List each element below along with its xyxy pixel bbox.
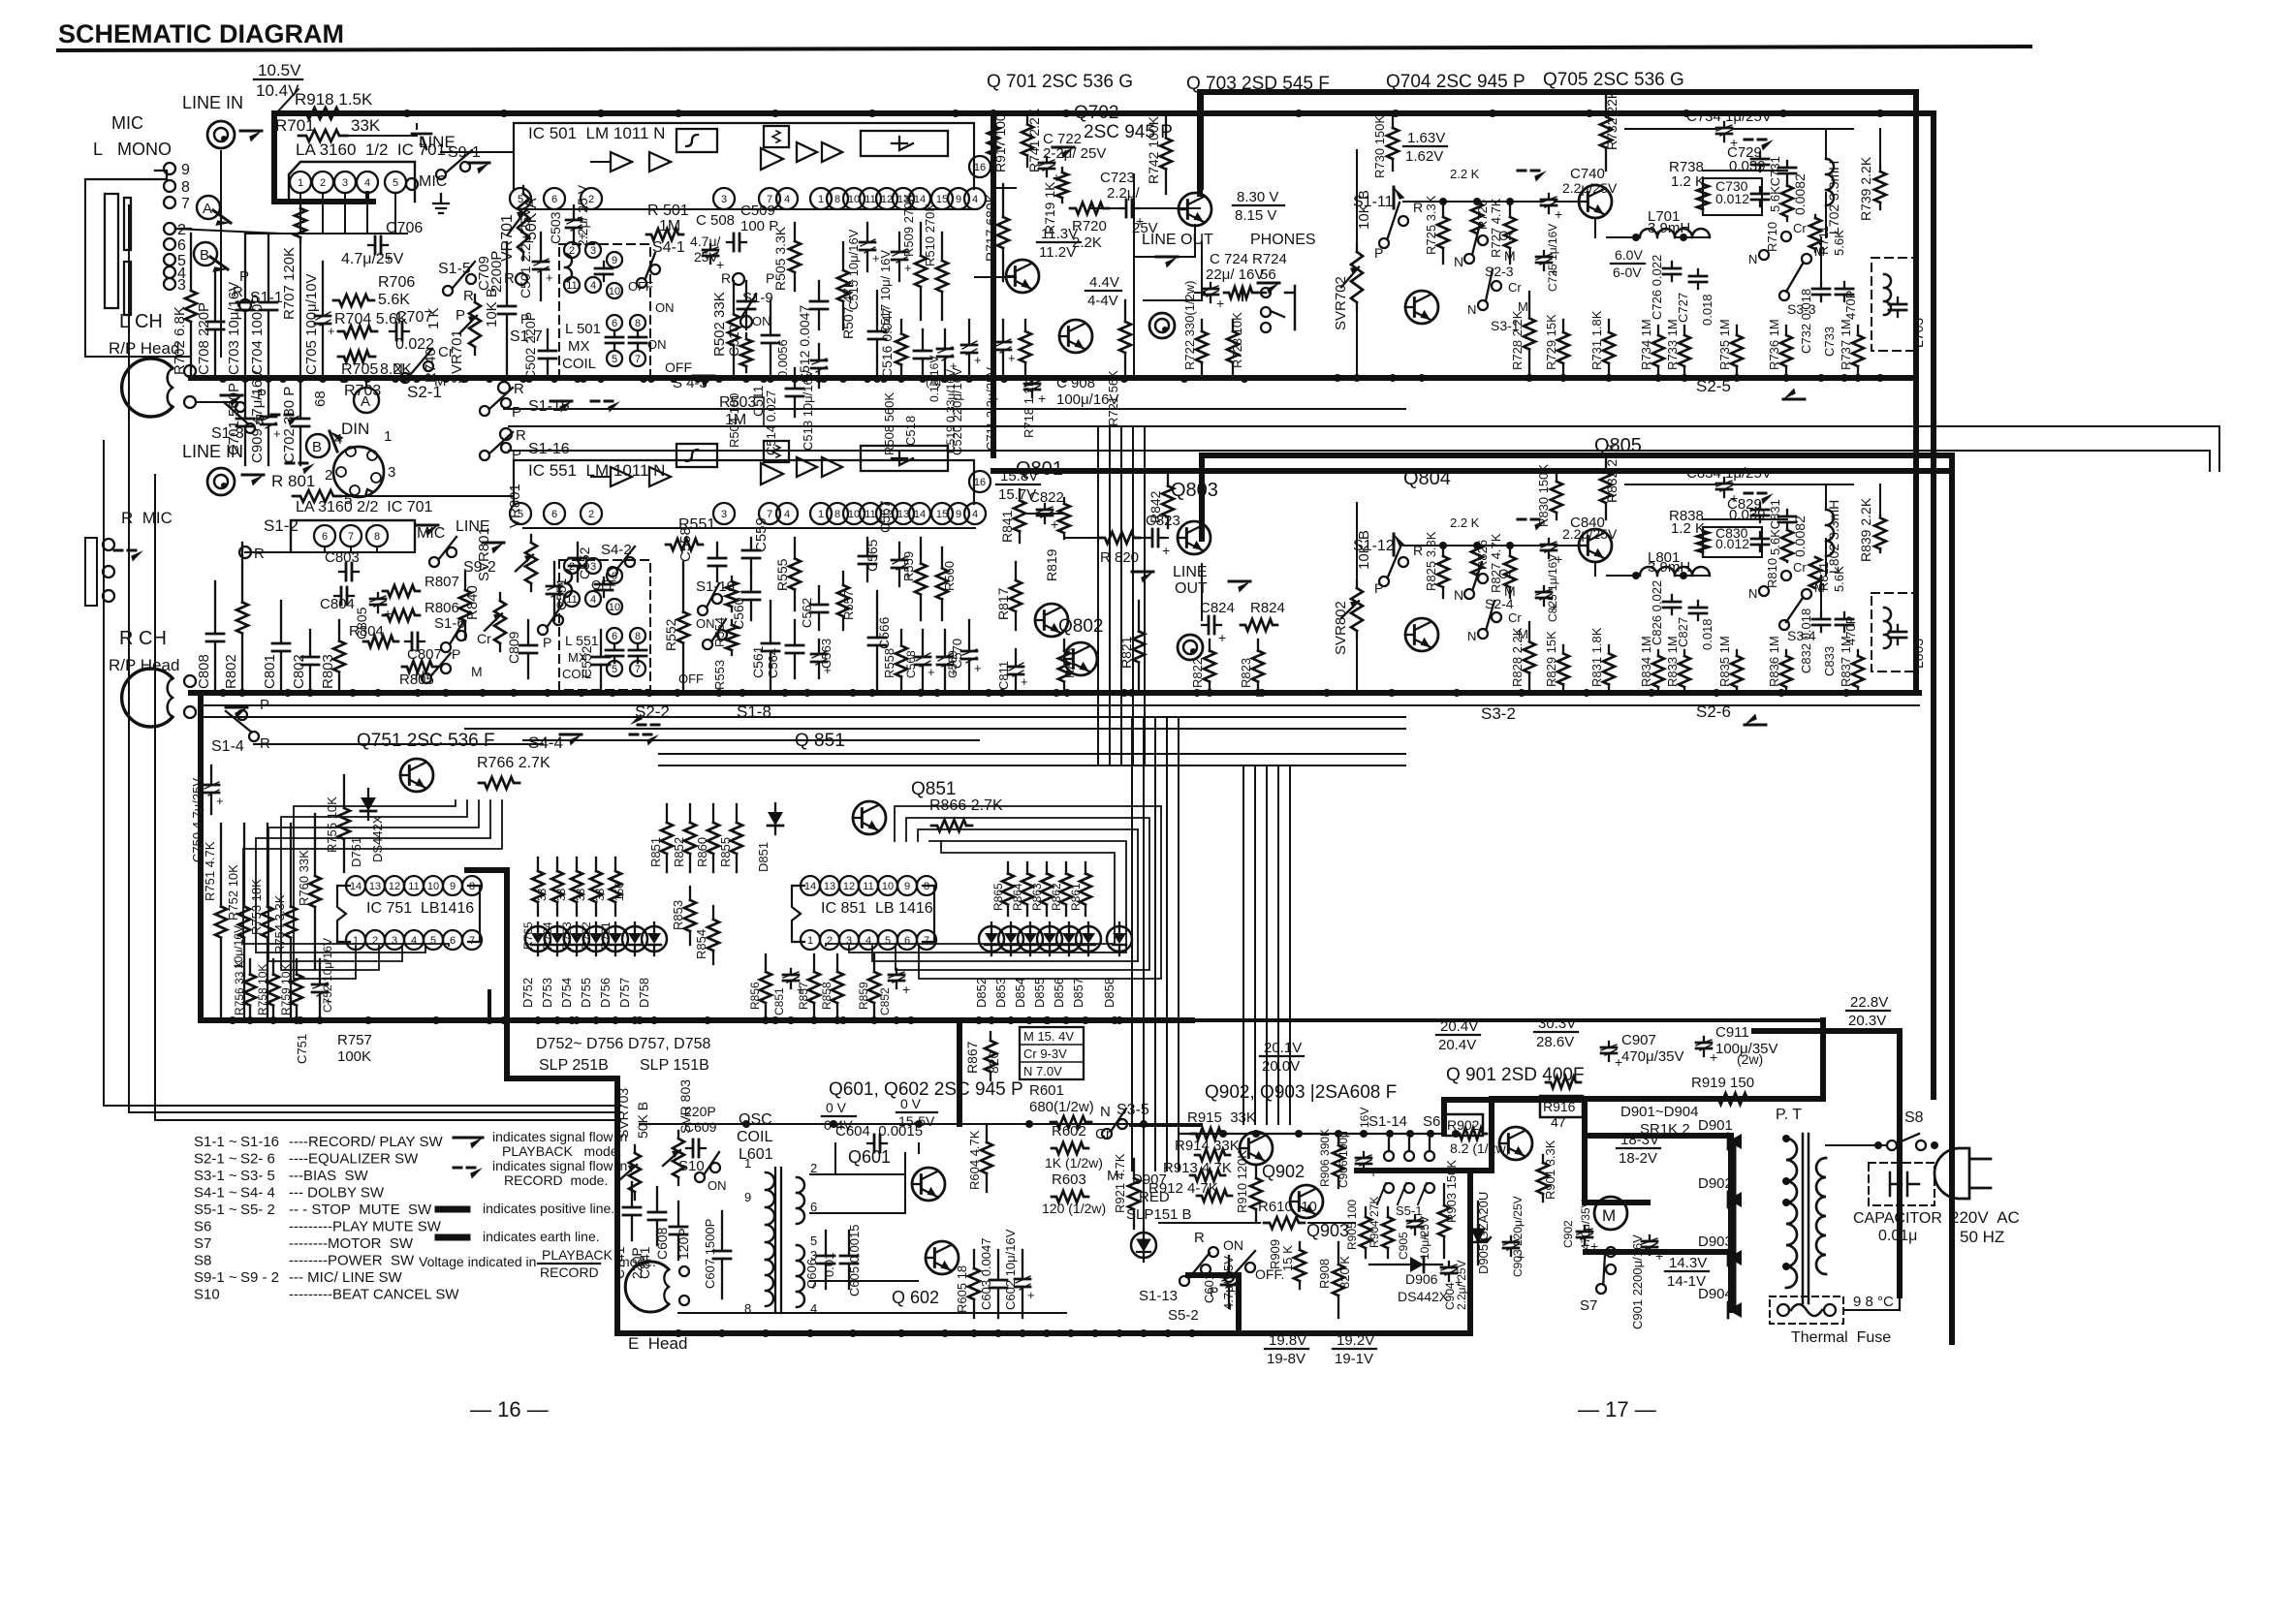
IC 851 wiring 0 — [895, 806, 1161, 979]
svg-text:28.6V: 28.6V — [1536, 1034, 1574, 1050]
svg-text:C 908: C 908 — [1056, 375, 1095, 391]
svg-text:C515 10μ/16V: C515 10μ/16V — [846, 229, 861, 310]
wire R701 to LINE sw — [416, 124, 418, 129]
mic contact 3 — [164, 278, 175, 290]
resistor R828 — [1528, 622, 1530, 641]
svg-text:100μ/16V: 100μ/16V — [1056, 391, 1119, 408]
svg-text:C607 1500P: C607 1500P — [703, 1219, 717, 1289]
svg-text:C832 0.018: C832 0.018 — [1799, 609, 1813, 673]
svg-text:0.01: 0.01 — [822, 1253, 836, 1277]
svg-text:R732 22K: R732 22K — [1604, 89, 1620, 150]
svg-text:10K B: 10K B — [1356, 530, 1372, 570]
IC701 2/2 outline — [291, 520, 415, 550]
svg-text:3: 3 — [590, 561, 596, 573]
resistor R913 — [1190, 1170, 1225, 1181]
capacitor C609 — [686, 1147, 693, 1149]
switch S1-11 — [1379, 238, 1389, 248]
capacitor C727 — [1697, 269, 1699, 276]
mic jack pin plate — [124, 198, 131, 250]
switch S9-1 mic contact — [406, 178, 418, 190]
svg-text:R508 560K: R508 560K — [882, 392, 896, 455]
svg-text:D855: D855 — [1032, 978, 1047, 1008]
resistor R825 — [1442, 546, 1444, 556]
svg-text:18-2V: 18-2V — [1619, 1150, 1657, 1167]
svg-text:10μ/16V: 10μ/16V — [232, 925, 245, 969]
capacitor C603 — [997, 1250, 999, 1280]
arrow s43b — [591, 400, 613, 403]
resistor R864r — [1026, 862, 1028, 874]
svg-text:P: P — [452, 646, 460, 662]
resistor R552 — [682, 562, 684, 612]
arrow s44b — [630, 734, 651, 736]
svg-text:C826 0.022: C826 0.022 — [1650, 580, 1664, 645]
switch S1-6 — [441, 642, 451, 652]
resistor R832 — [1605, 455, 1607, 472]
diode D906 — [1410, 1257, 1424, 1272]
svg-text:Q601: Q601 — [848, 1147, 891, 1167]
bus top right outer — [1200, 89, 1916, 95]
svg-text:R560: R560 — [942, 561, 957, 591]
capacitor C805 — [377, 593, 379, 599]
capacitor C519 — [944, 329, 946, 349]
svg-text:R717 680K: R717 680K — [983, 193, 998, 262]
svg-text:D852: D852 — [974, 978, 989, 1008]
capacitor C511 — [770, 300, 771, 335]
resistor R727 — [1509, 202, 1511, 217]
svg-text:Cr: Cr — [477, 631, 491, 646]
svg-text:8: 8 — [635, 631, 641, 642]
svg-text:R601: R601 — [1029, 1082, 1064, 1099]
IC 851 pin 11 — [859, 876, 878, 895]
bus right V3 drop — [1949, 455, 1955, 1342]
L501 cap a — [603, 262, 605, 268]
svg-text:-- - STOP MUTE SW: -- - STOP MUTE SW — [289, 1202, 432, 1218]
capacitor C567 — [898, 543, 900, 560]
svg-text:Q803: Q803 — [1171, 480, 1218, 501]
IC551 pin 2 — [581, 503, 602, 524]
transistor Q601 — [912, 1168, 945, 1201]
earth bus left drop — [198, 693, 204, 1020]
power V diode col — [1728, 1136, 1734, 1310]
svg-text:3: 3 — [721, 509, 727, 520]
resonator L803 box — [1871, 593, 1914, 671]
svg-text:----EQUALIZER SW: ----EQUALIZER SW — [289, 1151, 419, 1168]
svg-text:R 820: R 820 — [1100, 549, 1139, 566]
svg-text:+: + — [974, 661, 982, 675]
svg-text:S7: S7 — [1580, 1297, 1597, 1314]
switch S1-5 — [443, 286, 453, 296]
IC551 pin 13 — [893, 503, 914, 524]
resistor R921 4.7K — [1133, 1159, 1135, 1178]
svg-text:A: A — [361, 393, 370, 410]
svg-text:N: N — [1748, 586, 1757, 601]
svg-text:D752: D752 — [520, 978, 535, 1008]
svg-text:16: 16 — [974, 477, 986, 488]
resistor R739 — [1879, 165, 1881, 172]
positive bus L top — [274, 110, 1934, 116]
svg-text:N: N — [1454, 587, 1463, 603]
resistor R834 — [1657, 650, 1659, 656]
pot VR701 wiper — [508, 211, 525, 234]
mic R contacts — [103, 539, 114, 550]
svg-text:Cr: Cr — [1508, 280, 1522, 295]
IC 751 pin 10 — [424, 876, 443, 895]
dots earth R2 — [238, 689, 1262, 697]
svg-text:R912 4-7K: R912 4-7K — [1148, 1180, 1218, 1197]
svg-text:D901: D901 — [1698, 1117, 1733, 1134]
svg-text:---------BEAT CANCEL SW: ---------BEAT CANCEL SW — [289, 1287, 459, 1303]
IC 851 wiring 3 — [849, 841, 1126, 953]
switch S1-12 — [1379, 577, 1389, 586]
IC 851 wiring 2 — [872, 829, 1138, 961]
svg-text:DS442X: DS442X — [370, 815, 385, 862]
IC 851 wiring 1 — [896, 818, 1149, 970]
svg-text:S1-4: S1-4 — [211, 738, 244, 755]
svg-text:68: 68 — [312, 390, 329, 407]
resistor R702 6.8K — [190, 234, 192, 291]
switch bias N — [400, 373, 410, 383]
L551 cap c — [637, 643, 639, 650]
IC501 pin 4 — [964, 188, 986, 209]
wire c724 rail — [1195, 292, 1205, 294]
svg-text:SLP151 B: SLP151 B — [1126, 1206, 1192, 1223]
svg-text:R711: R711 — [1816, 226, 1831, 255]
diode D851 — [768, 812, 783, 826]
resistor R732 — [1605, 94, 1607, 116]
inductor L601a — [766, 1172, 774, 1260]
svg-text:R856: R856 — [748, 982, 762, 1010]
capacitor C822 — [1044, 504, 1046, 510]
IC551 pin 6 — [544, 503, 565, 524]
svg-text:Q802: Q802 — [1058, 616, 1103, 637]
svg-text:R823: R823 — [1239, 658, 1253, 688]
IC501 pin 9 — [948, 188, 969, 209]
junction dots top bus — [403, 109, 1884, 117]
IC 851 pin 14 — [801, 876, 820, 895]
LED block right V — [957, 1020, 962, 1124]
resistor R855 — [736, 804, 738, 823]
svg-text:R552: R552 — [663, 618, 678, 651]
wire LINE sw to IC — [441, 151, 514, 153]
supply run LED to C911 — [1192, 1018, 1823, 1022]
switch bias N R — [422, 673, 431, 683]
capacitor C732 — [1820, 282, 1822, 289]
svg-text:R817: R817 — [995, 587, 1011, 620]
svg-text:2-2μ/ 25V: 2-2μ/ 25V — [1043, 145, 1106, 162]
resistor R507 47K — [842, 242, 844, 270]
capacitor L803 cap — [1897, 625, 1899, 632]
IC701b pin 7 — [340, 525, 362, 547]
resistor R725 — [1442, 202, 1444, 217]
svg-text:D901~D904: D901~D904 — [1620, 1104, 1698, 1120]
svg-text:R867: R867 — [964, 1041, 980, 1074]
svg-text:1: 1 — [818, 194, 824, 205]
IC 851 outline2 — [923, 886, 934, 942]
capacitor C824 — [1202, 624, 1209, 626]
svg-text:R706: R706 — [378, 274, 415, 291]
wire C734 run2 — [1732, 128, 1853, 130]
transistor Q702 — [1006, 260, 1039, 293]
IC 751 pin 6 — [443, 930, 462, 950]
resistor R710 — [1786, 181, 1788, 186]
resistor R805 — [402, 661, 437, 672]
capacitor C706 — [368, 244, 375, 246]
capacitor C552a — [577, 543, 579, 558]
resistor R851 — [666, 804, 668, 823]
svg-text:+: + — [216, 794, 224, 808]
svg-text:S2- 6: S2- 6 — [240, 1151, 275, 1168]
svg-text:Q804: Q804 — [1403, 468, 1451, 489]
svg-text:C726 0.022: C726 0.022 — [1650, 255, 1664, 320]
inductor L601d — [797, 1245, 804, 1307]
svg-text:10K B: 10K B — [484, 288, 500, 328]
stub IC701 pin — [299, 193, 301, 234]
LED D907 — [1131, 1233, 1156, 1258]
resistor R865r — [1007, 862, 1009, 874]
svg-text:12: 12 — [843, 881, 855, 892]
resistor R841 — [1019, 489, 1021, 500]
svg-text:R753 18K: R753 18K — [249, 879, 264, 935]
svg-text:8: 8 — [374, 531, 380, 543]
capacitor C604 — [867, 1142, 874, 1144]
svg-text:Q751 2SC 536 F: Q751 2SC 536 F — [357, 731, 495, 751]
svg-text:0 V: 0 V — [900, 1096, 922, 1111]
earth bus R — [191, 690, 1919, 696]
wire S1-16 bend — [2209, 451, 2211, 471]
svg-text:0 V: 0 V — [826, 1100, 847, 1115]
svg-text:R509 270K: R509 270K — [901, 194, 916, 257]
svg-text:0.012: 0.012 — [1715, 191, 1749, 206]
capacitor C829 — [1759, 503, 1761, 510]
svg-text:Q902, Q903 |2SA608 F: Q902, Q903 |2SA608 F — [1205, 1082, 1397, 1103]
svg-text:Q 701 2SC 536 G: Q 701 2SC 536 G — [987, 72, 1133, 92]
capacitor C740 — [1548, 194, 1550, 200]
arrow s25 — [1783, 398, 1805, 401]
IC701 pin 1 — [290, 172, 311, 193]
IC501 pin 12 — [876, 188, 897, 209]
svg-text:SR1K 2: SR1K 2 — [1640, 1121, 1690, 1138]
positive bus drop x1023 — [991, 113, 996, 455]
wire r724 phones — [1254, 292, 1261, 294]
svg-text:R603: R603 — [1052, 1171, 1086, 1188]
L501 MX COIL box — [559, 244, 650, 376]
svg-text:R604 4.7K: R604 4.7K — [967, 1130, 982, 1190]
svg-text:12: 12 — [389, 881, 400, 892]
wire L702 v1 — [1825, 129, 1827, 159]
resistor R759b — [296, 959, 298, 975]
svg-text:C570: C570 — [950, 639, 964, 669]
svg-text:Q851: Q851 — [911, 779, 956, 799]
svg-text:Q702: Q702 — [1074, 103, 1118, 123]
svg-text:15: 15 — [936, 194, 948, 205]
svg-text:+: + — [1008, 351, 1016, 365]
arrow s21 — [271, 414, 293, 417]
svg-text:+: + — [904, 261, 912, 275]
LED D753 — [545, 926, 570, 952]
resistor R804 — [363, 636, 398, 647]
resistor R741 2.2K — [1026, 113, 1028, 124]
resistor R554 — [731, 577, 733, 581]
IC551 pin 1 — [810, 503, 832, 524]
svg-text:S 4-3: S 4-3 — [673, 375, 708, 391]
box R838 — [1703, 527, 1762, 557]
capacitor C733 — [1843, 282, 1845, 289]
pot SVR802 — [1356, 580, 1358, 588]
svg-text:P: P — [260, 697, 269, 713]
resistor R706 5.6K — [333, 295, 374, 306]
resistor R915 — [1191, 1128, 1226, 1140]
resistor R830 — [1556, 475, 1557, 482]
svg-text:SCHEMATIC DIAGRAM: SCHEMATIC DIAGRAM — [58, 19, 344, 48]
transistor Q851 — [853, 801, 886, 834]
svg-text:2.2 K: 2.2 K — [1450, 515, 1480, 530]
wire S1-15 bend — [2218, 426, 2220, 471]
svg-text:R831 1.8K: R831 1.8K — [1589, 627, 1604, 687]
earth bus LED block — [201, 1017, 1192, 1023]
svg-text:COIL: COIL — [737, 1129, 772, 1145]
resistor R761 — [614, 858, 616, 871]
resistor R704 — [338, 326, 377, 337]
svg-text:C906 100μ: C906 100μ — [1337, 1131, 1350, 1188]
svg-text:R824: R824 — [1250, 600, 1285, 616]
resistor R829 — [1562, 645, 1564, 653]
svg-text:2: 2 — [569, 245, 575, 257]
resistor R905 100 — [1365, 1207, 1367, 1217]
IC501 pin 15 — [931, 188, 953, 209]
svg-text:+: + — [273, 426, 281, 441]
IC701 pin 4 — [357, 172, 378, 193]
svg-text:9 8 °C: 9 8 °C — [1853, 1294, 1894, 1310]
osc c604 r — [918, 1143, 920, 1153]
L501 cap c — [637, 330, 639, 337]
svg-text:5: 5 — [612, 354, 617, 365]
resistor R818 — [1063, 640, 1065, 651]
resistor R705 — [338, 351, 375, 362]
resistor R742 100K — [1165, 113, 1167, 138]
svg-text:R901 3.3K: R901 3.3K — [1543, 1140, 1557, 1200]
AC plug — [1934, 1148, 1991, 1199]
stub IC701 pin — [366, 193, 368, 234]
resistor R726 — [1476, 202, 1478, 203]
resistor R766 — [479, 777, 519, 789]
IC 851 pin 4 — [859, 930, 878, 950]
wire bundle C v1 — [1254, 765, 1256, 1124]
IC701 pin4 thick — [365, 193, 369, 202]
svg-text:S5- 2: S5- 2 — [240, 1202, 275, 1218]
svg-text:S6: S6 — [194, 1219, 211, 1235]
svg-text:6: 6 — [810, 1200, 817, 1214]
osc rail q602 — [810, 1280, 918, 1282]
inductor L701 — [1640, 229, 1710, 237]
capacitor C807 — [405, 640, 412, 642]
wire R703 A2 — [365, 379, 367, 388]
svg-text:10μ/25V: 10μ/25V — [1418, 1216, 1431, 1260]
svg-text:C602 10μ/16V: C602 10μ/16V — [1003, 1229, 1018, 1310]
IC 851 pin 1 — [801, 930, 820, 950]
svg-text:14: 14 — [804, 881, 816, 892]
svg-text:+: + — [797, 982, 804, 997]
osc rail bot — [678, 1312, 1066, 1314]
svg-text:4: 4 — [590, 594, 596, 606]
resistor R854 — [712, 906, 714, 920]
resistor R762 — [595, 858, 597, 871]
power mid V x1517 — [1467, 1171, 1473, 1333]
svg-text:9: 9 — [904, 881, 910, 892]
capacitor C602 — [1022, 1250, 1023, 1279]
capacitor C823 — [1146, 537, 1152, 539]
dots bus388 — [1334, 374, 1884, 382]
diode D751 — [361, 797, 376, 811]
rail LA3160R — [245, 551, 415, 553]
svg-text:C518: C518 — [903, 416, 918, 446]
R/P head L — [122, 359, 173, 417]
svg-text:C520 220μ/16V: C520 220μ/16V — [950, 367, 964, 455]
svg-text:R919 150: R919 150 — [1691, 1075, 1754, 1091]
svg-text:R835 1M: R835 1M — [1717, 636, 1732, 687]
stub Q705 — [1594, 218, 1596, 237]
svg-text:R916: R916 — [1543, 1099, 1576, 1114]
arrow head L — [221, 394, 242, 397]
inductor L801 — [1640, 567, 1710, 576]
IC501 detbox — [861, 131, 948, 156]
svg-text:33: 33 — [535, 888, 549, 901]
IC551 outline — [514, 460, 974, 504]
svg-text:L MONO: L MONO — [93, 140, 172, 159]
DIN pin — [350, 485, 360, 495]
capacitor C562 — [818, 586, 820, 605]
svg-text:6: 6 — [551, 509, 557, 520]
resistor R756b — [249, 959, 251, 975]
svg-text:D905 GZA20U: D905 GZA20U — [1476, 1192, 1491, 1274]
wire c732 v — [1820, 576, 1822, 612]
LED D858 — [1107, 926, 1132, 952]
svg-text:P: P — [456, 307, 465, 324]
svg-text:C603 0.0047: C603 0.0047 — [979, 1238, 993, 1310]
mic contact 9 — [164, 163, 175, 174]
IC 851 pin 10 — [878, 876, 897, 895]
thermal fuse sym — [1791, 1304, 1822, 1316]
svg-text:C561: C561 — [750, 645, 766, 678]
resistor R602 — [1052, 1142, 1088, 1154]
wire mid run y790 — [659, 765, 1405, 766]
IC 851 wiring 4 — [826, 841, 1115, 946]
svg-text:R602: R602 — [1052, 1123, 1086, 1140]
IC551 amp4 — [797, 457, 817, 477]
svg-text:D903: D903 — [1698, 1234, 1733, 1250]
IC 751 wiring 2 — [268, 800, 479, 961]
svg-text:— 17 —: — 17 — — [1578, 1397, 1656, 1421]
capacitor C825 — [1543, 586, 1545, 592]
transistor Q903 — [1290, 1185, 1323, 1218]
IC 751 outline2 — [468, 886, 480, 942]
svg-text:30.3V: 30.3V — [1538, 1015, 1576, 1032]
L551 cap a — [603, 578, 605, 584]
switch S1-3 — [245, 423, 255, 433]
wire left outer h1 — [104, 1105, 620, 1107]
wire R707 down — [299, 243, 301, 379]
wire bundle A v3 — [1132, 426, 1134, 765]
svg-text:D906: D906 — [1405, 1271, 1438, 1287]
ground S9-1 — [433, 194, 449, 213]
svg-text:33: 33 — [593, 888, 607, 901]
svg-text:--------MOTOR SW: --------MOTOR SW — [289, 1235, 414, 1252]
IC551 pin 14 — [909, 503, 930, 524]
R503 bracket — [756, 397, 764, 426]
wire q803 up — [1200, 455, 1204, 512]
svg-text:R914 33K: R914 33K — [1175, 1138, 1240, 1154]
switch S3-5 — [1102, 1129, 1112, 1139]
wire q703 down — [1194, 225, 1196, 257]
